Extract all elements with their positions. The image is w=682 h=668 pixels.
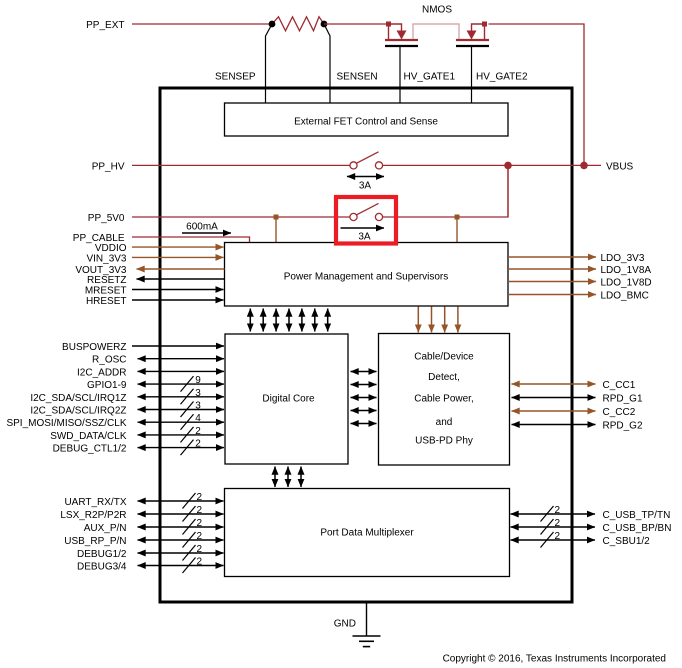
- svg-text:PP_EXT: PP_EXT: [86, 20, 124, 31]
- wire PP_5V0 left: [132, 216, 350, 218]
- wire R_OSC: [138, 358, 225, 360]
- svg-text:DEBUG_CTL1/2: DEBUG_CTL1/2: [53, 444, 127, 455]
- wire LDO_1V8A: [508, 268, 596, 270]
- wire RPD_G1: [512, 397, 596, 399]
- svg-text:SENSEP: SENSEP: [215, 72, 256, 83]
- svg-text:Port Data Multiplexer: Port Data Multiplexer: [320, 528, 414, 539]
- svg-text:and: and: [436, 417, 453, 428]
- svg-text:MRESET: MRESET: [85, 286, 127, 297]
- bus slash AUX: [183, 519, 196, 535]
- svg-text:2: 2: [197, 531, 203, 542]
- bus PMS to Digital Core (7 bidirectional wires): [250, 309, 327, 332]
- svg-text:2: 2: [197, 505, 203, 516]
- switch SW1 3A: [350, 152, 383, 169]
- wire USB_RP: [138, 539, 224, 541]
- wire Q2 to VBUS feeder: [489, 24, 585, 162]
- svg-text:PP_HV: PP_HV: [92, 161, 125, 172]
- wire LSX: [138, 513, 224, 515]
- wire HV_GATE2: [471, 47, 473, 103]
- wire DEBUG3/4: [138, 565, 224, 567]
- svg-text:GPIO1-9: GPIO1-9: [87, 380, 127, 391]
- svg-text:C_CC2: C_CC2: [603, 407, 636, 418]
- junction (square) PP_5V0 right tap: [455, 215, 460, 220]
- bus slash LSX: [183, 506, 196, 522]
- wire resistor to NMOS Q1: [324, 23, 389, 25]
- ground symbol: [353, 636, 381, 647]
- svg-text:3: 3: [195, 401, 201, 412]
- bus slash SPI: [181, 414, 194, 430]
- wire LDO_3V3: [508, 256, 596, 258]
- block Port Data Multiplexer: [225, 489, 510, 577]
- wire PP_HV down link: [507, 165, 509, 217]
- wire DEBUG_CTL: [138, 447, 225, 449]
- wire HRESET: [132, 299, 224, 301]
- junction (square) at Q1 drain: [386, 22, 391, 27]
- svg-text:RPD_G1: RPD_G1: [603, 394, 643, 405]
- wire tap down to PMS: [275, 217, 277, 243]
- wire LDO_1V8D: [508, 281, 596, 283]
- wire PP_HV right to VBUS: [383, 164, 601, 166]
- wire AUX: [138, 526, 224, 528]
- block Cable/Device Detect: [379, 334, 510, 466]
- junction (square) at Q2 drain: [482, 22, 487, 27]
- svg-text:External FET Control and Sense: External FET Control and Sense: [294, 117, 438, 128]
- resistor (current sense): [272, 17, 324, 31]
- svg-text:Cable/Device: Cable/Device: [414, 352, 474, 363]
- svg-text:Digital Core: Digital Core: [262, 394, 315, 405]
- svg-text:LDO_BMC: LDO_BMC: [601, 291, 649, 302]
- svg-text:UART_RX/TX: UART_RX/TX: [64, 497, 126, 508]
- junction dot resistor right: [321, 21, 328, 28]
- svg-text:DEBUG3/4: DEBUG3/4: [77, 562, 127, 573]
- svg-text:2: 2: [197, 544, 203, 555]
- svg-text:SWD_DATA/CLK: SWD_DATA/CLK: [50, 431, 127, 442]
- svg-text:USB_RP_P/N: USB_RP_P/N: [64, 536, 126, 547]
- svg-text:LDO_3V3: LDO_3V3: [601, 253, 645, 264]
- bus slash IRQ1Z: [181, 389, 194, 405]
- svg-text:SENSEN: SENSEN: [337, 72, 378, 83]
- junction dot PP_HV to PP_5V0: [504, 162, 512, 170]
- wire BUSPOWERZ: [132, 345, 224, 347]
- svg-text:I2C_SDA/SCL/IRQ2Z: I2C_SDA/SCL/IRQ2Z: [30, 406, 126, 417]
- svg-text:2: 2: [555, 505, 561, 516]
- svg-text:3A: 3A: [359, 181, 372, 192]
- svg-text:USB-PD Phy: USB-PD Phy: [415, 436, 473, 447]
- wire UART: [138, 500, 224, 502]
- svg-text:PP_5V0: PP_5V0: [88, 213, 125, 224]
- transistor Q2 NMOS right: [456, 24, 489, 46]
- wire VDDIO: [132, 246, 224, 248]
- wire PP_HV left: [132, 164, 350, 166]
- wire RPD_G2: [512, 424, 596, 426]
- wire VOUT_3V3: [137, 268, 225, 270]
- svg-text:9: 9: [195, 375, 201, 386]
- junction dot resistor left: [269, 21, 276, 28]
- svg-text:RESETZ: RESETZ: [87, 275, 126, 286]
- svg-text:LSX_R2P/P2R: LSX_R2P/P2R: [60, 510, 126, 521]
- wire C_CC2: [512, 410, 596, 412]
- svg-text:Cable Power,: Cable Power,: [414, 394, 473, 405]
- svg-text:4: 4: [195, 413, 201, 424]
- svg-text:VIN_3V3: VIN_3V3: [86, 253, 126, 264]
- bus slash C_USB_BP: [541, 519, 554, 535]
- svg-text:AUX_P/N: AUX_P/N: [84, 523, 127, 534]
- wire PP_CABLE: [132, 237, 250, 243]
- wire C_USB_TP/TN: [511, 513, 596, 515]
- wire I2C_ADDR: [138, 370, 225, 372]
- wire SENSEN drop: [324, 24, 330, 103]
- wire PP_EXT to resistor: [132, 23, 272, 25]
- svg-text:C_CC1: C_CC1: [603, 380, 636, 391]
- bus slash C_USB_TP: [541, 506, 554, 522]
- svg-text:HRESET: HRESET: [86, 296, 127, 307]
- current arrow SW2: [341, 227, 385, 229]
- junction dot VBUS: [580, 162, 588, 170]
- junction (square) PP_5V0 left tap: [274, 215, 279, 220]
- svg-text:3: 3: [195, 388, 201, 399]
- svg-text:C_SBU1/2: C_SBU1/2: [603, 536, 651, 547]
- svg-text:GND: GND: [334, 618, 356, 629]
- transistor Q1 NMOS left: [385, 24, 418, 46]
- svg-text:2: 2: [197, 492, 203, 503]
- svg-text:2: 2: [555, 518, 561, 529]
- wire GPIO1-9: [138, 383, 225, 385]
- svg-text:2: 2: [197, 518, 203, 529]
- wire GND: [366, 604, 368, 637]
- svg-text:HV_GATE1: HV_GATE1: [404, 72, 456, 83]
- svg-text:NMOS: NMOS: [422, 5, 452, 16]
- bus slash C_SBU: [541, 532, 554, 548]
- svg-text:HV_GATE2: HV_GATE2: [476, 72, 528, 83]
- wire PP_5V0 right: [383, 165, 508, 217]
- svg-text:2: 2: [195, 426, 201, 437]
- bus slash SWD: [181, 427, 194, 443]
- bus slash GPIO: [181, 376, 194, 392]
- wire DEBUG1/2: [138, 552, 224, 554]
- bus PMS to Cable block (4 brown wires): [418, 307, 458, 333]
- svg-text:LDO_1V8A: LDO_1V8A: [601, 265, 652, 276]
- svg-text:BUSPOWERZ: BUSPOWERZ: [62, 342, 126, 353]
- bus slash DEBUG3/4: [183, 558, 196, 574]
- wire SPI: [138, 421, 225, 423]
- outer chip boundary box: [160, 88, 572, 602]
- current arrow 600mA: [182, 232, 231, 234]
- bidirectional current arrow SW1: [347, 176, 384, 178]
- wire C_USB_BP/BN: [511, 526, 596, 528]
- block External FET Control and Sense: [225, 103, 509, 136]
- wire SENSEP drop: [266, 24, 273, 103]
- svg-text:SPI_MOSI/MISO/SSZ/CLK: SPI_MOSI/MISO/SSZ/CLK: [6, 418, 126, 429]
- svg-text:Copyright © 2016, Texas Instru: Copyright © 2016, Texas Instruments Inco…: [443, 654, 666, 665]
- highlight box (red) around SW2: [336, 197, 396, 244]
- bus slash DEBUG1/2: [183, 545, 196, 561]
- bus Digital Core to Cable block (5 bidirectional wires): [351, 372, 377, 424]
- bus slash DEBUG_CTL: [181, 440, 194, 456]
- wire IRQ2Z: [138, 409, 225, 411]
- bus slash USB_RP: [183, 532, 196, 548]
- wire C_CC1: [512, 383, 596, 385]
- svg-text:2: 2: [555, 531, 561, 542]
- svg-text:LDO_1V8D: LDO_1V8D: [601, 278, 652, 289]
- wire C_SBU1/2: [511, 539, 596, 541]
- block Power Management and Supervisors: [225, 243, 509, 307]
- wire VIN_3V3: [132, 256, 224, 258]
- svg-text:2: 2: [197, 557, 203, 568]
- svg-text:RPD_G2: RPD_G2: [603, 421, 643, 432]
- svg-text:C_USB_TP/TN: C_USB_TP/TN: [603, 510, 671, 521]
- wire RESETZ: [137, 278, 225, 280]
- svg-text:Detect,: Detect,: [428, 372, 460, 383]
- wire HV_GATE1: [399, 47, 401, 103]
- svg-text:VBUS: VBUS: [606, 161, 634, 172]
- wire MRESET: [132, 289, 224, 291]
- svg-text:2: 2: [195, 439, 201, 450]
- svg-text:C_USB_BP/BN: C_USB_BP/BN: [603, 523, 672, 534]
- switch SW2 3A: [350, 203, 383, 220]
- wire SWD: [138, 434, 225, 436]
- svg-text:I2C_SDA/SCL/IRQ1Z: I2C_SDA/SCL/IRQ1Z: [30, 393, 126, 404]
- svg-text:DEBUG1/2: DEBUG1/2: [77, 549, 127, 560]
- wire IRQ1Z: [138, 396, 225, 398]
- wire tap down to PMS: [456, 217, 458, 243]
- svg-text:3A: 3A: [358, 231, 371, 242]
- bus slash IRQ2Z: [181, 402, 194, 418]
- wire LDO_BMC: [508, 294, 596, 296]
- block Digital Core: [225, 334, 348, 464]
- svg-text:R_OSC: R_OSC: [92, 355, 126, 366]
- svg-text:Power Management and Superviso: Power Management and Supervisors: [284, 272, 449, 283]
- svg-text:600mA: 600mA: [186, 222, 218, 233]
- bus Digital Core to Port Data Multiplexer (3 bidirectional wires): [275, 467, 301, 488]
- bus slash UART: [183, 493, 196, 509]
- svg-text:I2C_ADDR: I2C_ADDR: [77, 367, 126, 378]
- wire source link Q1-Q2 (light): [413, 24, 459, 39]
